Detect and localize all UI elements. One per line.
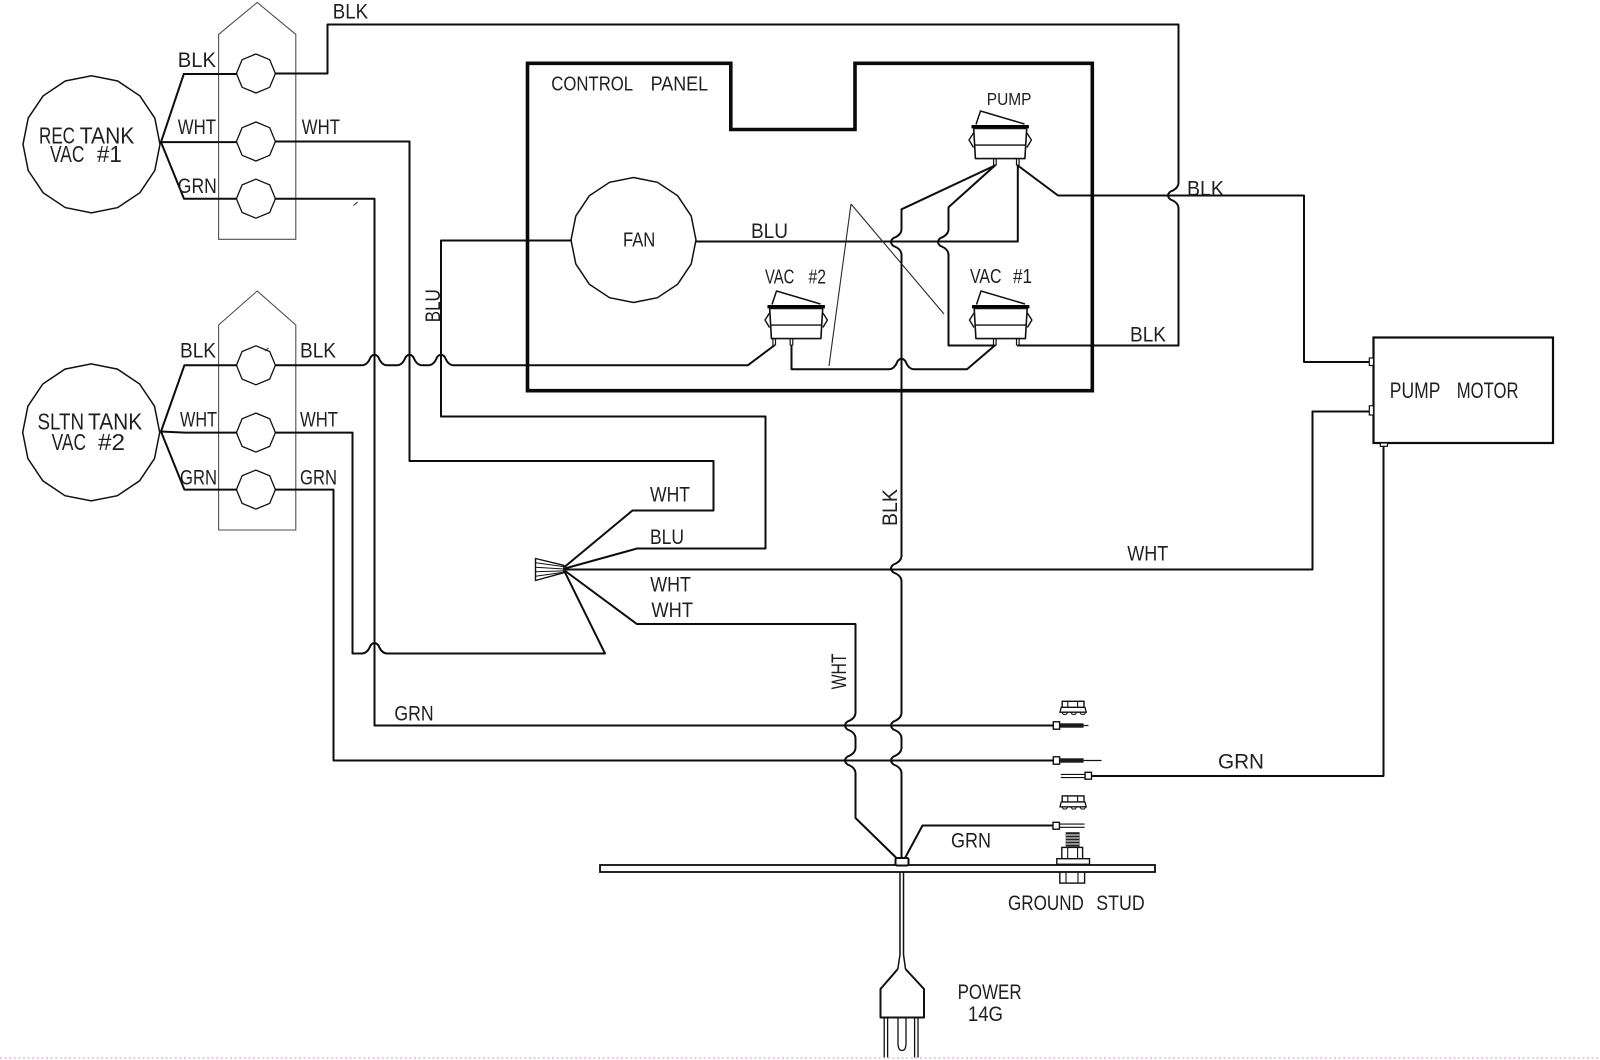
wire GRN tank1 to J1 pin3 (161, 142, 236, 199)
motor SLTN TANK VAC #2 (23, 364, 160, 501)
svg-text:14G: 14G (968, 1003, 1003, 1026)
svg-text:VAC: VAC (50, 141, 84, 167)
tick mark near J1 (354, 202, 358, 206)
wire GRN PUMP MOTOR bottom terminal to ring terminal 3 (1092, 446, 1384, 776)
svg-text:WHT: WHT (828, 653, 851, 689)
leader line A (829, 204, 851, 366)
svg-text:GRN: GRN (1218, 750, 1264, 773)
svg-text:BLK: BLK (1130, 323, 1166, 346)
wire GRN ground lug to ring terminal 4 (905, 826, 1053, 859)
connector J2 pin 2 (236, 413, 275, 452)
svg-text:#1: #1 (97, 141, 122, 167)
svg-text:PUMP: PUMP (987, 89, 1032, 109)
ring terminal 3 (1061, 772, 1092, 779)
svg-text:BLK: BLK (333, 0, 368, 23)
control panel enclosure (528, 63, 1093, 390)
wire GRN J1 pin3 down and across to ring terminal 1 (275, 199, 1053, 726)
wire PUMP left pin to VAC1 left pin (938, 166, 995, 346)
wire WHT tank2 to J2 pin2 (161, 432, 236, 433)
leader line B (851, 204, 944, 314)
switch VAC #2 SW2 (765, 291, 827, 346)
svg-text:VAC: VAC (765, 266, 794, 288)
svg-text:WHT: WHT (1127, 543, 1168, 566)
svg-text:BLK: BLK (300, 339, 336, 362)
wire WHT J2 pin2 dogleg to wire nut (275, 433, 605, 654)
wire BLK J2 pin1 to VAC2 switch left pin (with hops) (275, 346, 774, 366)
svg-text:WHT: WHT (300, 408, 338, 431)
svg-text:WHT: WHT (651, 599, 693, 622)
svg-text:GRN: GRN (180, 466, 217, 489)
connector J2 pin 1 (236, 346, 275, 385)
connector J1 pin 3 (236, 179, 275, 218)
plug prong right (915, 1018, 918, 1058)
svg-text:#1: #1 (1013, 266, 1032, 288)
svg-text:WHT: WHT (650, 484, 690, 507)
svg-text:BLU: BLU (650, 526, 684, 549)
svg-text:BLU: BLU (422, 289, 445, 322)
plug prong left (884, 1018, 887, 1058)
wire WHT wire nut to PUMP MOTOR lower terminal (565, 412, 1369, 570)
svg-text:BLU: BLU (751, 220, 788, 243)
ground plate (600, 865, 1155, 872)
svg-text:BLK: BLK (180, 339, 216, 362)
tick mark near J2 (265, 348, 269, 351)
motor PUMP MOTOR (1369, 338, 1553, 447)
svg-text:GRN: GRN (394, 702, 433, 725)
wire BLK J1 pin1 to BLK net top run down to VAC1 right pin (275, 25, 1178, 346)
hex nut 1 (1060, 701, 1086, 714)
wire GRN J2 pin3 down and across to ring terminal 2 (275, 490, 1053, 761)
power plug body (881, 969, 925, 1018)
connector J2 pin 3 (236, 470, 275, 509)
svg-text:STUD: STUD (1096, 891, 1144, 915)
wire BLU fan to PUMP switch right pin (696, 166, 1018, 242)
svg-text:PANEL: PANEL (651, 74, 709, 96)
svg-text:MOTOR: MOTOR (1457, 378, 1519, 403)
wire BLK PUMP right pin to PUMP MOTOR upper terminal (1018, 166, 1370, 363)
svg-text:WHT: WHT (650, 573, 691, 596)
plug prong ground (898, 1018, 906, 1051)
fan FAN (571, 178, 696, 303)
ground lug junction (896, 858, 909, 866)
power cord (898, 872, 906, 969)
svg-text:WHT: WHT (178, 116, 216, 139)
ring terminal 1 (1053, 722, 1088, 729)
svg-text:WHT: WHT (180, 408, 217, 431)
wire WHT J1 pin2 dogleg to wire nut (275, 142, 713, 567)
connector J1 pin 1 (236, 54, 275, 93)
svg-text:WHT: WHT (302, 116, 340, 139)
svg-text:BLK: BLK (178, 49, 216, 72)
svg-text:#2: #2 (98, 429, 125, 455)
connector J1 pin 2 (236, 122, 275, 161)
svg-text:PUMP: PUMP (1390, 378, 1441, 403)
svg-text:BLK: BLK (879, 489, 902, 526)
ring terminal 4 (1053, 822, 1085, 829)
switch PUMP SW1 (969, 111, 1031, 166)
wire VAC2 right pin to VAC1 left pin (hop over BLK) (792, 346, 995, 370)
svg-text:VAC: VAC (52, 429, 86, 455)
ring terminal 2 (1053, 757, 1101, 764)
svg-text:POWER: POWER (958, 981, 1022, 1004)
wire GRN tank2 to J2 pin3 (161, 432, 236, 490)
motor REC TANK VAC #1 (23, 76, 160, 213)
wire BLK tank2 to J2 pin1 (161, 365, 236, 431)
svg-text:CONTROL: CONTROL (551, 74, 633, 96)
connector J1 housing (219, 3, 296, 240)
pink margin line (0, 1057, 1600, 1059)
connector J2 housing (219, 291, 296, 530)
wire BLK PUMP left pin down to ground lug (891, 166, 995, 859)
wire BLK tank1 to J1 pin1 (161, 74, 236, 142)
svg-text:FAN: FAN (623, 230, 655, 252)
svg-text:BLK: BLK (1187, 177, 1224, 200)
wire BLU fan to wire nut via dogleg (441, 241, 766, 569)
wire WHT wire nut down to ground lug (565, 571, 897, 859)
svg-text:GRN: GRN (300, 466, 337, 489)
svg-text:VAC: VAC (970, 266, 1002, 288)
ground stud bolt (1057, 832, 1090, 883)
svg-text:#2: #2 (809, 266, 827, 288)
switch VAC #1 SW3 (970, 291, 1032, 346)
svg-text:GRN: GRN (178, 175, 217, 198)
wire nut junction (536, 559, 564, 581)
svg-text:GRN: GRN (951, 829, 991, 852)
svg-text:GROUND: GROUND (1008, 891, 1084, 915)
hex nut 2 (1060, 796, 1086, 809)
wire WHT tank1 to J1 pin2 (161, 141, 236, 143)
